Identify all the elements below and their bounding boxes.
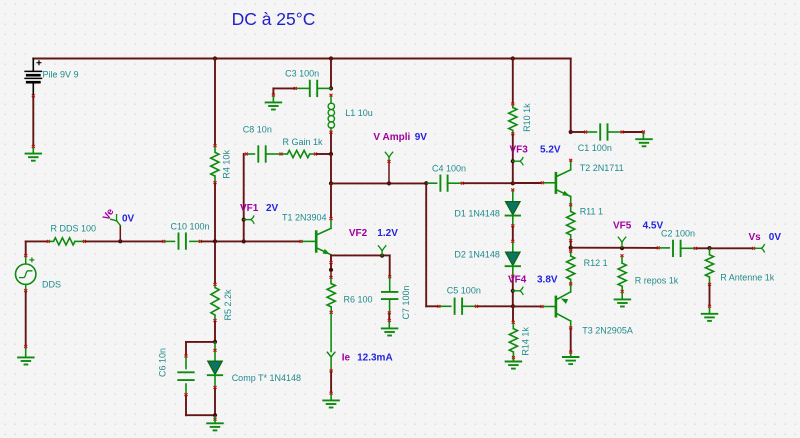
label C4 100n (432, 163, 466, 173)
wire C5 to T3 node (478, 305, 513, 307)
wire top to R10 (512, 59, 514, 103)
wire R14 top lead (512, 324, 514, 329)
pin marker R4 bottom (214, 181, 217, 184)
wire ground G5 lead (330, 395, 332, 400)
label VF2 value 1.2V (377, 228, 398, 239)
svg-text:VF2: VF2 (349, 228, 368, 239)
pin marker R Antenne bottom (708, 283, 711, 286)
pin marker R repos bottom (621, 290, 624, 293)
pin marker C5 left (437, 305, 440, 308)
pin marker R6 bottom (330, 311, 333, 314)
junction base rail / VF1 column (242, 239, 246, 243)
probe Ve (110, 214, 124, 228)
junction base rail / R4-R5 column (213, 239, 217, 243)
ground G9 (C1) (636, 139, 652, 146)
pin marker R11 bottom (569, 239, 572, 242)
wire ground lead (R Antenne) (709, 308, 711, 314)
probe Vs (754, 244, 764, 252)
wire C4 to D1 node (464, 182, 513, 184)
label T3 2N2905A (582, 326, 633, 336)
wire C8 left lead (248, 153, 255, 155)
pin marker C7 pin bottom (388, 311, 391, 314)
wire R11 top lead (570, 206, 572, 211)
wire ground G3 lead (272, 97, 274, 103)
label Ve (101, 207, 117, 223)
svg-text:C3 100n: C3 100n (285, 68, 319, 78)
resistor R DDS 100 (54, 238, 75, 245)
wire C6 branch down (185, 342, 187, 354)
wire T3 node to R14 (512, 306, 514, 321)
pin marker R12 bottom (569, 283, 572, 286)
wire C2 left lead (660, 247, 670, 249)
wire R6 to Ie probe (330, 314, 332, 352)
wire R4 to base rail (214, 184, 216, 241)
junction collector node (329, 181, 333, 185)
wire D1 bottom lead (512, 216, 514, 225)
label VF1 value 2V (266, 203, 279, 214)
pin marker C1 right (621, 131, 624, 134)
wire R repos top lead (621, 257, 623, 263)
pin marker D1 top (511, 189, 514, 192)
wire D1 to D2 (512, 227, 514, 240)
probe Ie (current arrow) (327, 352, 335, 357)
ground G7 (R14) (506, 362, 522, 369)
node V Ampli dot (387, 181, 391, 185)
svg-text:L1 10u: L1 10u (345, 108, 373, 118)
pin marker C5 right (475, 305, 478, 308)
pin marker ground G6 (388, 319, 391, 322)
wire C8 right lead (266, 153, 280, 155)
pin marker ground G3 (272, 94, 275, 97)
junction C1 node (569, 130, 573, 134)
label R4 10k (222, 150, 232, 179)
pin marker R6 top pin (330, 261, 333, 264)
pin marker C7 top (388, 275, 391, 278)
wire top supply rail (33, 58, 570, 60)
wire battery to ground (32, 97, 34, 145)
wire D2 bottom lead (512, 266, 514, 275)
svg-text:T2 2N1711: T2 2N1711 (580, 163, 624, 173)
wire R4 top lead (214, 147, 216, 152)
wire ground G1 lead (32, 148, 34, 153)
wire C4 right lead (448, 182, 461, 184)
pin marker T1 collector (330, 217, 333, 220)
wire C6 to bottom join (186, 396, 213, 415)
pin marker T3 collector (569, 327, 572, 330)
wire D1 top lead (512, 191, 514, 201)
resistor R4 10k (211, 152, 219, 176)
wire T2 base lead (544, 182, 555, 184)
wire T3 base lead (544, 306, 555, 308)
wire D2 to C5 node (512, 278, 514, 306)
label R6 100 (344, 295, 373, 305)
svg-text:R10 1k: R10 1k (522, 103, 532, 132)
wire DDS bottom lead (25, 284, 27, 289)
pin marker C1 left (584, 131, 587, 134)
node A junction (R5/C6/diode) (213, 340, 217, 344)
wire ground G6 lead (388, 322, 390, 328)
wire C10 left lead (165, 240, 174, 242)
probe VF3 (513, 157, 523, 165)
wire R6 bottom lead (330, 307, 332, 311)
wire C8 to R Gain (283, 153, 288, 155)
label R repos 1k (635, 276, 679, 286)
capacitor C8 10n (258, 146, 265, 161)
resistor R repos 1k (618, 263, 626, 286)
capacitor C1 100n (600, 124, 607, 139)
svg-text:5.2V: 5.2V (540, 145, 561, 156)
battery V1 Pile 9V (25, 60, 41, 82)
transistor T1 2N3904 (316, 220, 331, 255)
wire C5 corner to cap (426, 305, 437, 307)
pin marker ground (R Antenne) (708, 305, 711, 308)
wire VF1 column (243, 154, 245, 241)
label VF5 (613, 220, 632, 231)
wire C1 node right (571, 131, 585, 133)
pin marker T3 base (541, 305, 544, 308)
svg-text:DC à 25°C: DC à 25°C (232, 9, 316, 29)
wire R5 bottom lead (214, 315, 216, 319)
pin marker C2 left (657, 247, 660, 250)
svg-text:C7 100n: C7 100n (401, 285, 411, 319)
svg-text:R5 2.2k: R5 2.2k (223, 289, 233, 321)
node VF5 junction (620, 246, 624, 250)
wire C1 right lead (608, 131, 621, 133)
pin marker R14 top (512, 321, 515, 324)
junction R Antenne node (707, 246, 711, 250)
svg-text:C8 10n: C8 10n (243, 125, 272, 135)
svg-text:R6 100: R6 100 (344, 295, 373, 305)
pin marker R11 top (569, 203, 572, 206)
wire battery top lead (32, 59, 34, 95)
label C1 100n (578, 143, 612, 153)
wire C1 to ground corner (624, 131, 644, 133)
label R10 1k (522, 103, 532, 132)
wire emitter to R6 (330, 255, 332, 261)
junction D1 node (511, 181, 515, 185)
probe VF1 (244, 215, 254, 223)
svg-text:C1 100n: C1 100n (578, 143, 612, 153)
pin marker L1 top (330, 94, 333, 97)
svg-text:VF3: VF3 (510, 145, 529, 156)
label Ve value 0V (122, 214, 135, 225)
ground G3 (C3) (266, 102, 282, 109)
resistor R6 100 (327, 284, 335, 307)
pin marker DDS top (24, 254, 27, 257)
label Comp T* 1N4148 (232, 373, 301, 383)
label C6 10n (158, 348, 168, 377)
svg-text:DDS: DDS (42, 280, 61, 290)
pin marker C8 right (280, 153, 283, 156)
ground G4 (comp branch) (207, 423, 223, 430)
wire base rail corner to DDS (25, 241, 27, 254)
capacitor C7 100n (382, 292, 398, 299)
ground G5 (emitter) (323, 400, 339, 407)
resistor R14 1k (509, 329, 517, 352)
probe VF4 (513, 287, 523, 295)
pin marker diode top (214, 349, 217, 352)
pin marker R DDS right (83, 240, 86, 243)
svg-text:0V: 0V (122, 214, 135, 225)
wire C3 to ground corner (273, 88, 293, 93)
svg-text:R DDS 100: R DDS 100 (51, 224, 97, 234)
wire collector node down (330, 183, 332, 217)
wire R14 bottom lead (512, 352, 514, 356)
wire R repos bottom lead (621, 286, 623, 290)
label T1 2N3904 (282, 212, 327, 222)
wire C3 left lead (297, 87, 310, 89)
label Ie (342, 352, 351, 363)
svg-text:T1 2N3904: T1 2N3904 (282, 212, 327, 222)
svg-text:Pile 9V 9: Pile 9V 9 (43, 70, 79, 80)
wire DDS top lead (25, 257, 27, 264)
svg-text:1.2V: 1.2V (377, 228, 398, 239)
wire ground G8 lead (570, 354, 572, 357)
wire Ve probe stem (119, 226, 121, 242)
wire C6 top lead (185, 357, 187, 368)
pin marker V Ampli (388, 160, 391, 163)
label C10 100n (171, 222, 210, 232)
wire C2 right lead (681, 247, 694, 249)
svg-text:Ie: Ie (342, 352, 351, 363)
node VF3 dot (511, 159, 515, 163)
pin marker R5 top (214, 283, 217, 286)
junction bottom (diode/C6/ground) (213, 413, 217, 417)
wire Ie to ground (330, 372, 332, 391)
pin marker R Gain right (314, 153, 317, 156)
ground G2 (DDS) (18, 357, 34, 364)
wire R Gain right lead (310, 153, 314, 155)
wire R11 bottom lead (570, 235, 572, 239)
resistor R11 1 (567, 212, 575, 236)
wire top rail right corner down to C1 node (570, 59, 572, 133)
svg-text:3.8V: 3.8V (537, 275, 558, 286)
svg-text:R repos 1k: R repos 1k (635, 276, 679, 286)
label D1 1N4148 (454, 209, 500, 219)
pin marker T1 base (300, 240, 303, 243)
pin marker C4 right (461, 182, 464, 185)
diode D1 1N4148 (506, 202, 520, 216)
wire R10 top lead (512, 105, 514, 107)
pin marker D2 top (511, 240, 514, 243)
junction top rail / R4 column (213, 56, 217, 60)
capacitor C10 100n (179, 233, 186, 248)
svg-text:C4 100n: C4 100n (432, 163, 466, 173)
wire C3 right lead (318, 87, 332, 89)
label C8 10n (243, 125, 272, 135)
wire T1 base lead (303, 240, 316, 242)
label DDS (42, 280, 61, 290)
svg-text:R11 1: R11 1 (580, 207, 603, 217)
resistor R Antenne 1k (705, 255, 713, 277)
label Pile 9V 9 (43, 70, 79, 80)
pin marker D1 bottom (511, 224, 514, 227)
wire C7 to ground (388, 314, 390, 319)
wire C2 to R Antenne node (697, 247, 710, 249)
pin marker R4 top (214, 144, 217, 147)
pin marker D2 bottom (511, 275, 514, 278)
label D2 1N4148 (454, 250, 500, 260)
pin marker C10 right (199, 240, 202, 243)
wire R Antenne node to Vs (710, 247, 753, 249)
junction C3 node (329, 86, 333, 90)
wire C10 to T1 base (202, 240, 300, 242)
wire C5 right lead (462, 305, 475, 307)
junction C4/C5 corner node (424, 181, 428, 185)
label R DDS 100 (51, 224, 97, 234)
pin marker T2 collector (569, 159, 572, 162)
pin marker Vs (752, 247, 755, 250)
label VF1 (240, 203, 259, 214)
wire V Ampli line (331, 182, 426, 184)
pin marker L1 bottom (330, 131, 333, 134)
wire Ie to tick (330, 357, 332, 369)
wire C4-C5 vertical (425, 183, 427, 306)
pin marker ground G8 (569, 351, 572, 354)
capacitor C4 100n (440, 176, 447, 191)
label VF4 (508, 275, 527, 286)
wire R DDS right lead (75, 240, 83, 242)
pin marker C10 left (162, 240, 165, 243)
label R Antenne 1k (720, 273, 775, 283)
svg-text:R14 1k: R14 1k (521, 327, 531, 356)
pin marker T2 base (541, 181, 544, 184)
svg-text:R4 10k: R4 10k (222, 150, 232, 179)
pin marker R10 top (511, 103, 514, 106)
label VF2 (349, 228, 368, 239)
pin marker R14 bottom (512, 356, 515, 359)
svg-text:T3 2N2905A: T3 2N2905A (582, 326, 633, 336)
pin marker battery bottom (32, 94, 35, 97)
label C7 100n (401, 285, 411, 319)
label Vs (749, 232, 762, 243)
wire R5 to node A (214, 322, 216, 342)
capacitor C3 100n (310, 81, 317, 96)
label VF5 value 4.5V (643, 220, 664, 231)
pin marker diode bottom (214, 386, 217, 389)
pin marker R repos top (621, 254, 624, 257)
wire node to T3 base (513, 305, 541, 307)
pin marker R5 bottom (214, 319, 217, 322)
wire R Gain to L1 node (317, 153, 331, 155)
wire L1 node down to collector node (330, 154, 332, 183)
label V Ampli (373, 132, 410, 143)
svg-text:12.3mA: 12.3mA (357, 352, 393, 363)
wire ground G9 lead (642, 133, 644, 138)
pin marker ground G1 (32, 145, 35, 148)
svg-text:VF4: VF4 (508, 275, 527, 286)
wire R12 to T3 emitter (570, 285, 572, 291)
wire R12 top lead (570, 253, 572, 256)
label L1 10u (345, 108, 373, 118)
svg-text:D1 1N4148: D1 1N4148 (454, 209, 500, 219)
diode Comp T* 1N4148 (208, 361, 222, 375)
probe VF5 (618, 237, 626, 247)
wire emitter corner down to C7 (389, 255, 391, 275)
wire C4 left lead (428, 182, 437, 184)
wire R Antenne top lead (709, 248, 711, 254)
svg-text:R12 1: R12 1 (584, 258, 608, 268)
wire L1 to R Gain node (330, 134, 332, 153)
source DDS generator (16, 257, 36, 284)
pin marker R DDS left (47, 240, 50, 243)
transistor T3 2N2905A (556, 292, 571, 327)
wire ground G2 lead (25, 348, 27, 357)
wire node A left to C6 branch (186, 341, 215, 343)
pin marker C6 bottom (185, 393, 188, 396)
wire ground G4 lead (214, 417, 216, 424)
junction C5/T3 node (511, 304, 515, 308)
label VF4 value 3.8V (537, 275, 558, 286)
wire node A to diode (214, 343, 216, 349)
wire R6 top lead (330, 279, 332, 284)
wire C5 left lead (440, 305, 450, 307)
node Ve junction dot (118, 239, 122, 243)
wire R DDS left lead (50, 240, 54, 242)
wire diode bottom lead (214, 376, 216, 386)
wire R repos ground lead (621, 293, 623, 299)
label VF3 (510, 145, 529, 156)
pin marker ground G2 (24, 345, 27, 348)
svg-text:V Ampli: V Ampli (373, 132, 410, 143)
wire top rail to R4 (214, 59, 216, 145)
wire T3 collector to ground (570, 329, 572, 350)
transistor T2 2N1711 (556, 161, 571, 196)
wire R4 bottom lead (214, 176, 216, 181)
svg-text:C10 100n: C10 100n (171, 222, 210, 232)
svg-text:0V: 0V (769, 232, 782, 243)
wire D1 node to T2 base (513, 182, 541, 184)
wire C6 bottom lead (185, 384, 187, 393)
label VF3 value 5.2V (540, 145, 561, 156)
junction mid node (R11/R12) (569, 246, 573, 250)
wire C10 right lead (190, 240, 199, 242)
pin marker C1 ground corner (642, 131, 645, 134)
wire R DDS to C10 (86, 240, 162, 242)
ground (R Antenne) (702, 314, 718, 321)
wire R12 bottom lead (570, 280, 572, 283)
resistor R Gain 1k (287, 150, 309, 157)
wire diode to bottom junction (214, 389, 216, 414)
probe V Ampli (385, 152, 393, 160)
ground G1 (battery) (26, 154, 42, 161)
pin marker C2 right (694, 247, 697, 250)
label T2 2N1711 (580, 163, 624, 173)
wire C7 top lead (389, 278, 391, 291)
capacitor C5 100n (455, 299, 463, 314)
resistor R12 1 (567, 256, 575, 280)
label Ie value 12.3mA (357, 352, 393, 363)
pin marker ground G4 (214, 418, 217, 421)
wire R10 bottom lead (512, 130, 514, 132)
label C3 100n (285, 68, 319, 78)
wire C7 bottom lead (389, 300, 391, 311)
label C2 100n (661, 228, 695, 238)
svg-text:C2 100n: C2 100n (661, 228, 695, 238)
wire base rail to R5 (214, 243, 216, 283)
pin marker C6 top (185, 355, 188, 358)
diode D2 1N4148 (506, 252, 520, 266)
svg-text:VF5: VF5 (613, 220, 632, 231)
wire tiny seg (330, 264, 332, 268)
junction R6 node dot (329, 268, 333, 272)
wire DDS corner to R-DDS (26, 240, 47, 242)
wire R11 to mid node (570, 242, 572, 248)
junction L1/R Gain node (329, 152, 333, 156)
pin marker R12 top (569, 250, 572, 253)
pin marker R6 top (330, 272, 333, 279)
label C5 100n (447, 286, 481, 296)
